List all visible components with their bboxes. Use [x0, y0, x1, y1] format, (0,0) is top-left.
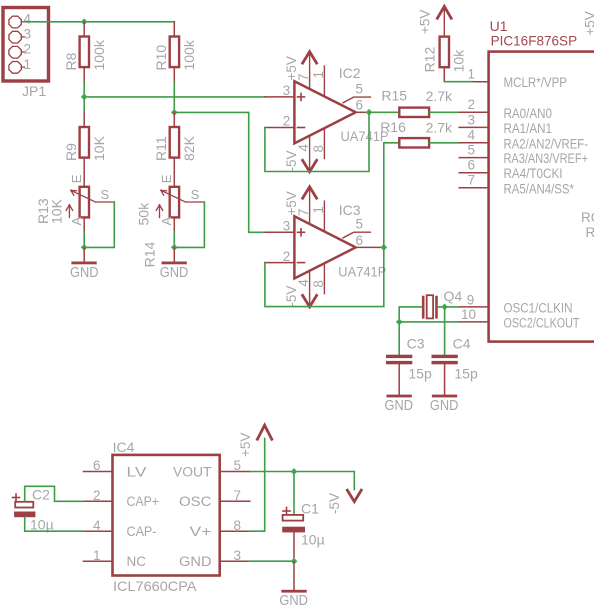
svg-text:5: 5: [234, 458, 242, 473]
chip IC4 ICL7660CPA: [83, 439, 249, 594]
wire R13 wiper to bottom junction: [84, 202, 114, 247]
svg-text:MCLR*/VPP: MCLR*/VPP: [504, 75, 568, 90]
svg-text:CAP-: CAP-: [127, 524, 157, 539]
SECTION: crystal and caps: [385, 288, 478, 414]
svg-text:C4: C4: [453, 336, 471, 352]
pin 10 OSC2: [459, 321, 489, 323]
svg-text:1: 1: [93, 548, 101, 563]
svg-text:VOUT: VOUT: [173, 464, 212, 479]
svg-text:2: 2: [93, 488, 101, 503]
svg-text:1: 1: [311, 71, 326, 79]
svg-text:100k: 100k: [91, 39, 107, 70]
svg-text:C3: C3: [407, 336, 425, 352]
svg-text:S: S: [101, 187, 110, 202]
svg-text:+5V: +5V: [583, 11, 594, 35]
wire R14 wiper to bottom junction: [174, 202, 204, 247]
svg-text:3: 3: [283, 218, 291, 233]
pin 4 RA2: [459, 142, 488, 144]
svg-text:OSC1/CLKIN: OSC1/CLKIN: [504, 300, 573, 315]
svg-text:OSC2/CLKOUT: OSC2/CLKOUT: [504, 315, 580, 330]
wire C2 top to CAP+: [25, 486, 84, 502]
SECTION: top-left JP1 and resistor ladder: [3, 8, 265, 281]
svg-text:4: 4: [296, 144, 311, 152]
svg-text:R11: R11: [153, 136, 169, 161]
SECTION: op-amps: [265, 52, 459, 307]
svg-text:5: 5: [356, 82, 364, 97]
svg-text:4: 4: [296, 279, 311, 287]
resistor R9: [63, 112, 107, 187]
svg-text:PIC16F876SP: PIC16F876SP: [491, 32, 577, 48]
potentiometer R13: [35, 174, 114, 232]
svg-text:RA0/AN0: RA0/AN0: [504, 106, 553, 121]
ground below R13: [70, 247, 99, 280]
pin 2 RA0: [459, 111, 488, 113]
node junction crystal/OSC1/C4: [441, 304, 448, 311]
svg-text:8: 8: [311, 145, 326, 153]
op-amp IC3: [265, 187, 386, 307]
svg-text:3: 3: [234, 548, 242, 563]
op-amp IC2: [265, 52, 389, 172]
svg-text:C1: C1: [301, 501, 319, 517]
svg-text:10k: 10k: [451, 49, 467, 73]
svg-text:1: 1: [468, 67, 476, 82]
svg-text:GND: GND: [430, 398, 459, 414]
svg-text:R15: R15: [381, 88, 407, 104]
supply +5V arrow near IC4: [238, 425, 272, 457]
wire crystal left to OSC2 node: [399, 307, 422, 322]
svg-text:2: 2: [283, 249, 291, 264]
wire V+ to +5V: [250, 439, 265, 532]
wire R8 bottom to junction: [83, 82, 85, 97]
svg-text:6: 6: [356, 98, 364, 113]
svg-text:CAP+: CAP+: [127, 494, 160, 509]
svg-text:4: 4: [24, 12, 32, 27]
pin 1 MCLR: [474, 81, 489, 83]
svg-text:5: 5: [468, 143, 476, 158]
svg-text:9: 9: [467, 292, 475, 307]
svg-text:2.7k: 2.7k: [426, 120, 453, 136]
svg-text:R12: R12: [422, 47, 438, 73]
svg-text:R16: R16: [380, 119, 406, 135]
svg-text:+5V: +5V: [418, 10, 433, 34]
ground below C3: [385, 364, 414, 414]
svg-text:3: 3: [24, 27, 32, 42]
svg-text:E: E: [69, 174, 84, 183]
svg-text:8: 8: [311, 280, 326, 288]
potentiometer R14: [136, 174, 205, 267]
wire OSC2 node to U1 pin10: [399, 321, 458, 323]
svg-text:2.7k: 2.7k: [426, 88, 453, 104]
wire IC2 output to R15: [369, 111, 399, 113]
wire IC2 feedback loop: [265, 112, 369, 171]
pin 4 CAP-: [83, 530, 112, 532]
node junction at R8/R9: [81, 94, 88, 101]
connector JP1: [3, 8, 49, 100]
svg-text:R: R: [586, 225, 594, 240]
svg-text:10µ: 10µ: [301, 532, 325, 548]
svg-text:RA3/AN3/VREF+: RA3/AN3/VREF+: [504, 151, 589, 166]
SECTION: U1 PIC: [418, 6, 594, 341]
ground below C1: [279, 561, 308, 609]
svg-text:10K: 10K: [91, 135, 107, 161]
supply -5V arrow: [327, 490, 361, 514]
svg-text:15p: 15p: [408, 366, 432, 382]
svg-text:GND: GND: [70, 265, 99, 281]
crystal Q4: [423, 288, 462, 318]
svg-text:2: 2: [468, 97, 476, 112]
wire IC3 output up to R16: [384, 143, 400, 248]
pin 8 V+: [220, 530, 250, 532]
wire crystal right to OSC1 node: [438, 306, 459, 308]
svg-text:Q4: Q4: [444, 288, 463, 304]
svg-text:-5V: -5V: [327, 493, 342, 514]
svg-text:+5V: +5V: [238, 433, 253, 457]
capacitor C3: [386, 336, 432, 382]
svg-text:7: 7: [234, 488, 242, 503]
resistor R10: [153, 22, 197, 82]
pin 7 OSC: [220, 500, 250, 502]
ground below C4: [430, 364, 459, 414]
svg-text:5: 5: [356, 217, 364, 232]
node junction at R10/R11: [171, 109, 178, 116]
resistor R16: [380, 119, 453, 147]
svg-text:JP1: JP1: [22, 83, 46, 99]
wire node down to C1: [293, 472, 295, 515]
wire node down to C3: [398, 322, 400, 355]
capacitor C1: [282, 501, 324, 548]
wire R12 to U1 pin1: [444, 81, 473, 83]
svg-text:IC2: IC2: [339, 65, 361, 81]
pin 7 RA5: [459, 187, 488, 189]
svg-text:3: 3: [283, 83, 291, 98]
svg-text:RA4/T0CKI: RA4/T0CKI: [504, 166, 563, 181]
pin 2 CAP+: [83, 500, 112, 502]
pin 6 LV: [83, 471, 112, 473]
capacitor C4: [432, 336, 478, 382]
capacitor C2: [13, 487, 54, 533]
SECTION: IC4 charge pump: [13, 425, 362, 609]
node junction crystal/OSC2/C3: [396, 319, 403, 326]
svg-text:RA1/AN1: RA1/AN1: [504, 121, 553, 136]
wire node to IC3 noninverting input: [174, 112, 265, 232]
svg-text:NC: NC: [127, 554, 147, 569]
svg-text:82K: 82K: [181, 135, 197, 161]
svg-text:6: 6: [356, 233, 364, 248]
svg-text:OSC: OSC: [179, 494, 212, 509]
svg-text:ICL7660CPA: ICL7660CPA: [113, 578, 197, 594]
node junction at R13/GND: [81, 244, 88, 251]
svg-text:3: 3: [468, 112, 476, 127]
svg-text:GND: GND: [385, 398, 414, 414]
svg-text:RA5/AN4/SS*: RA5/AN4/SS*: [504, 181, 575, 196]
svg-text:C2: C2: [32, 487, 50, 503]
svg-text:1: 1: [311, 206, 326, 214]
wire JP1 pin4 to R8/R10 tops: [25, 21, 175, 23]
svg-text:2: 2: [283, 114, 291, 129]
pin 1 NC: [83, 560, 112, 562]
svg-text:10µ: 10µ: [30, 517, 54, 533]
svg-text:A: A: [69, 217, 84, 226]
svg-text:E: E: [159, 174, 174, 183]
pin 9 OSC1: [459, 306, 489, 308]
svg-text:IC4: IC4: [113, 439, 135, 455]
svg-text:100k: 100k: [181, 39, 197, 70]
svg-text:R10: R10: [153, 45, 169, 71]
wire R10 bottom to junction: [173, 82, 175, 112]
svg-text:-5V: -5V: [284, 286, 299, 307]
wire IC3 feedback loop: [265, 247, 384, 306]
svg-text:A: A: [159, 217, 174, 226]
pin 3 RA1: [459, 126, 488, 128]
svg-text:UA741P: UA741P: [338, 263, 386, 279]
wire node to IC2 noninverting input: [84, 96, 265, 98]
svg-text:R8: R8: [63, 52, 79, 70]
svg-text:V+: V+: [190, 524, 212, 539]
svg-text:LV: LV: [127, 464, 147, 479]
svg-text:6: 6: [468, 158, 476, 173]
wire VOUT to -5V and C1: [250, 472, 354, 490]
pin 5 VOUT: [220, 471, 250, 473]
svg-text:GND: GND: [179, 554, 212, 569]
svg-text:GND: GND: [160, 265, 189, 281]
svg-text:RC: RC: [581, 210, 594, 225]
resistor R12: [418, 6, 467, 81]
wire R15 to U1 pin2: [429, 111, 459, 113]
svg-text:R9: R9: [63, 143, 79, 161]
wire C1 bottom to GND node: [293, 532, 295, 561]
node junction at R8 top: [81, 18, 88, 25]
svg-text:10: 10: [461, 307, 476, 322]
node junction GND/C1: [291, 558, 298, 565]
resistor R8: [63, 22, 107, 82]
wire R13 bottom to junction: [83, 232, 85, 247]
node junction IC3 output: [380, 244, 387, 251]
wire junction to R9: [83, 97, 85, 112]
svg-text:6: 6: [93, 458, 101, 473]
svg-text:S: S: [191, 187, 200, 202]
svg-text:15p: 15p: [454, 366, 478, 382]
svg-text:2: 2: [24, 42, 32, 57]
node junction IC2 output: [366, 109, 373, 116]
svg-text:7: 7: [468, 173, 476, 188]
pin 6 RA4: [459, 172, 488, 174]
svg-text:10K: 10K: [49, 198, 65, 224]
wire C2 bottom to CAP-: [25, 517, 84, 531]
svg-text:8: 8: [234, 518, 242, 533]
svg-text:R14: R14: [142, 242, 158, 268]
svg-text:GND: GND: [279, 593, 308, 609]
wire GND pin to node: [250, 560, 294, 562]
svg-text:RA2/AN2/VREF-: RA2/AN2/VREF-: [504, 136, 589, 151]
svg-text:1: 1: [24, 57, 32, 72]
node junction VOUT/C1: [291, 468, 298, 475]
svg-text:4: 4: [468, 128, 476, 143]
svg-text:4: 4: [93, 518, 101, 533]
wire R14 bottom to junction: [173, 232, 175, 247]
node junction at R14/GND: [171, 244, 178, 251]
svg-text:-5V: -5V: [284, 150, 299, 171]
pin 5 RA3: [459, 157, 488, 159]
resistor R15: [381, 88, 453, 117]
wire node down to C4: [444, 307, 446, 355]
resistor R11: [153, 112, 197, 186]
ground below R14: [160, 247, 189, 280]
svg-text:50k: 50k: [136, 202, 152, 226]
wire R16 to U1 pin4: [429, 142, 459, 144]
svg-text:+5V: +5V: [284, 191, 299, 215]
pin 3 GND: [220, 560, 250, 562]
svg-text:+5V: +5V: [284, 56, 299, 80]
chip U1 PIC16F876SP: [459, 11, 594, 341]
